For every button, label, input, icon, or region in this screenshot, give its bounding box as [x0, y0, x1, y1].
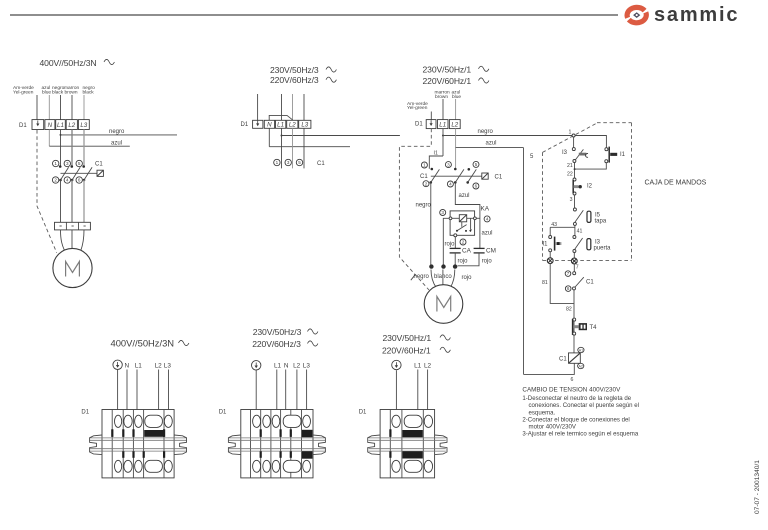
- svg-text:3-Ajustar el rele termico: 3-Ajustar el rele termico según el esque…: [522, 431, 638, 438]
- svg-text:5: 5: [298, 160, 301, 165]
- svg-text:L2: L2: [424, 362, 432, 369]
- svg-text:220V/60Hz/1: 220V/60Hz/1: [423, 76, 472, 86]
- svg-text:L3: L3: [301, 122, 308, 129]
- svg-text:azul: azul: [459, 193, 470, 199]
- svg-text:6: 6: [571, 377, 574, 383]
- svg-text:4: 4: [66, 178, 69, 183]
- svg-text:Yel-green: Yel-green: [13, 90, 34, 96]
- svg-text:N: N: [284, 362, 289, 369]
- svg-text:C1: C1: [420, 174, 428, 180]
- svg-text:puerta: puerta: [594, 245, 612, 251]
- svg-text:2-Conectar el bloque de co: 2-Conectar el bloque de conexiones del: [522, 416, 629, 423]
- svg-text:3: 3: [441, 210, 444, 215]
- svg-text:CA: CA: [462, 247, 472, 254]
- svg-text:rojo: rojo: [482, 259, 493, 265]
- svg-text:black: black: [83, 90, 95, 96]
- svg-text:L3: L3: [303, 362, 311, 369]
- svg-text:L1: L1: [274, 362, 282, 369]
- svg-text:220V/60Hz/3: 220V/60Hz/3: [252, 339, 301, 349]
- svg-text:Yel-green: Yel-green: [407, 105, 428, 111]
- svg-text:L3: L3: [164, 362, 172, 369]
- svg-text:230V/50Hz/3: 230V/50Hz/3: [253, 327, 302, 337]
- svg-text:D1: D1: [415, 122, 423, 128]
- svg-text:L1: L1: [439, 122, 446, 129]
- svg-text:negro: negro: [414, 274, 430, 280]
- svg-text:7: 7: [576, 264, 579, 270]
- svg-text:6: 6: [567, 286, 570, 291]
- svg-text:L1: L1: [277, 122, 284, 129]
- svg-text:KA: KA: [481, 206, 490, 213]
- svg-text:400V//50Hz/3N: 400V//50Hz/3N: [111, 338, 175, 349]
- svg-text:N: N: [267, 122, 272, 129]
- svg-text:L2: L2: [293, 362, 301, 369]
- svg-text:I3: I3: [562, 150, 568, 156]
- svg-text:N: N: [48, 122, 53, 129]
- svg-text:2: 2: [462, 240, 465, 245]
- svg-text:L3: L3: [80, 122, 87, 129]
- svg-text:I1: I1: [620, 152, 626, 158]
- svg-text:L2: L2: [155, 362, 163, 369]
- svg-text:1: 1: [54, 161, 57, 166]
- svg-text:L1: L1: [135, 362, 143, 369]
- svg-text:82: 82: [566, 307, 572, 313]
- svg-text:5: 5: [475, 162, 478, 167]
- svg-text:D1: D1: [219, 410, 227, 416]
- svg-text:4: 4: [449, 182, 452, 187]
- svg-text:C1: C1: [586, 280, 594, 286]
- svg-text:230V/50Hz/1: 230V/50Hz/1: [423, 64, 472, 74]
- svg-text:blue: blue: [452, 94, 461, 100]
- svg-text:L2: L2: [451, 122, 458, 129]
- svg-text:6: 6: [475, 184, 478, 189]
- svg-text:blue: blue: [42, 90, 51, 96]
- svg-text:2: 2: [54, 178, 57, 183]
- svg-text:D1: D1: [241, 122, 249, 128]
- svg-text:brown: brown: [435, 94, 448, 100]
- svg-text:D1: D1: [359, 410, 367, 416]
- svg-text:1: 1: [569, 129, 572, 135]
- svg-text:C1: C1: [559, 356, 567, 362]
- svg-text:motor 400V/230V: motor 400V/230V: [529, 424, 577, 431]
- svg-text:5: 5: [78, 161, 81, 166]
- svg-text:A2: A2: [578, 365, 582, 369]
- svg-text:black: black: [52, 90, 64, 96]
- svg-text:negro: negro: [109, 129, 125, 135]
- svg-text:CM: CM: [486, 247, 496, 254]
- svg-text:negro: negro: [478, 129, 494, 135]
- svg-text:I2: I2: [587, 184, 593, 190]
- svg-text:3: 3: [447, 162, 450, 167]
- svg-text:L1: L1: [414, 362, 422, 369]
- svg-text:C1: C1: [495, 174, 503, 180]
- svg-text:CAMBIO DE TENSION 400V/230V: CAMBIO DE TENSION 400V/230V: [522, 386, 621, 393]
- svg-text:4: 4: [486, 217, 489, 222]
- svg-text:rojo: rojo: [445, 241, 456, 247]
- svg-text:220V/60Hz/3: 220V/60Hz/3: [270, 75, 319, 85]
- svg-text:6: 6: [78, 178, 81, 183]
- svg-text:7: 7: [567, 271, 570, 276]
- svg-text:41: 41: [577, 228, 583, 234]
- svg-text:N: N: [125, 362, 130, 369]
- svg-text:L2: L2: [68, 122, 75, 129]
- svg-text:negro: negro: [416, 202, 432, 208]
- svg-text:conexiones. Conectar el pue: conexiones. Conectar el puente según el: [529, 402, 639, 409]
- svg-text:230V/50Hz/1: 230V/50Hz/1: [383, 333, 432, 343]
- svg-text:07-07 - 2001340/1: 07-07 - 2001340/1: [754, 460, 761, 514]
- svg-text:1: 1: [276, 160, 279, 165]
- svg-text:D1: D1: [81, 410, 89, 416]
- svg-text:C1: C1: [317, 161, 325, 167]
- svg-text:azul: azul: [111, 140, 122, 146]
- svg-text:L2: L2: [289, 122, 296, 129]
- svg-text:400V//50Hz/3N: 400V//50Hz/3N: [40, 58, 97, 68]
- svg-text:230V/50Hz/3: 230V/50Hz/3: [270, 65, 319, 75]
- svg-text:220V/60Hz/1: 220V/60Hz/1: [382, 345, 431, 355]
- svg-text:sammic: sammic: [654, 4, 739, 26]
- svg-text:I1: I1: [434, 150, 438, 156]
- svg-text:T4: T4: [590, 325, 598, 331]
- svg-text:A1: A1: [579, 349, 583, 353]
- svg-text:CAJA DE MANDOS: CAJA DE MANDOS: [645, 179, 707, 186]
- svg-text:D1: D1: [19, 123, 27, 129]
- svg-text:5: 5: [530, 154, 534, 160]
- svg-text:L1: L1: [57, 122, 64, 129]
- svg-text:C1: C1: [95, 162, 103, 168]
- svg-text:3: 3: [570, 197, 573, 203]
- svg-text:21: 21: [567, 163, 573, 169]
- svg-text:azul: azul: [486, 141, 497, 147]
- svg-text:43: 43: [551, 222, 557, 228]
- svg-text:esquema.: esquema.: [529, 409, 556, 416]
- svg-text:I1: I1: [543, 242, 549, 248]
- svg-text:2: 2: [425, 181, 428, 186]
- svg-text:rojo: rojo: [458, 258, 469, 264]
- svg-text:3: 3: [287, 160, 290, 165]
- svg-text:22: 22: [567, 172, 573, 178]
- svg-text:1-Desconectar el neutro de: 1-Desconectar el neutro de la regleta de: [522, 395, 631, 402]
- svg-text:azul: azul: [482, 230, 493, 236]
- svg-text:1: 1: [423, 163, 426, 168]
- svg-text:brown: brown: [65, 90, 78, 96]
- svg-text:3: 3: [66, 161, 69, 166]
- svg-text:rojo: rojo: [462, 275, 473, 281]
- svg-text:tapa: tapa: [595, 219, 607, 225]
- svg-text:81: 81: [542, 280, 548, 286]
